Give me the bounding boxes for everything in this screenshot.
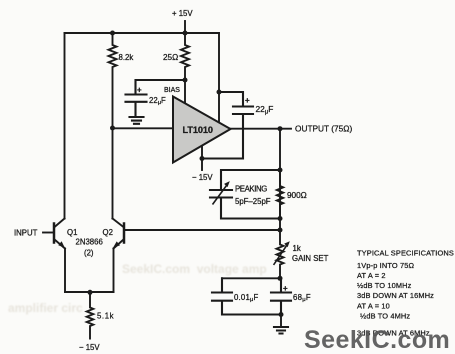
resistor R3 1k gain set	[277, 230, 284, 278]
wire: output vertical to network	[279, 129, 281, 230]
op-amp U1 LT1010	[173, 97, 231, 163]
svg-text:68μF: 68μF	[293, 293, 311, 303]
arrowhead: peaking arrow	[224, 181, 230, 187]
wire: V+ branch down from rail	[218, 33, 220, 92]
wire: V- to output cap bottom	[202, 158, 243, 160]
transistor Q2 collector	[113, 219, 124, 228]
transistor Q2 emitter	[114, 240, 124, 249]
capacitor C4 0.01uF	[212, 278, 232, 314]
ground: under bias capacitor	[130, 117, 144, 124]
svg-text:AT A = 10: AT A = 10	[357, 302, 390, 311]
svg-text:GAIN SET: GAIN SET	[292, 254, 329, 263]
svg-text:Q1: Q1	[67, 228, 77, 237]
svg-text:TYPICAL SPECIFICATIONS: TYPICAL SPECIFICATIONS	[357, 249, 454, 258]
svg-text:22μF: 22μF	[256, 104, 274, 115]
capacitor C3 peaking 5pF-25pF	[210, 170, 232, 219]
wire: left vertical (rail to Q1 collector)	[64, 33, 66, 219]
svg-text:SeekIC.com voltage amp: SeekIC.com voltage amp	[122, 262, 267, 276]
resistor R4 5.1k	[87, 292, 94, 339]
svg-text:AT A = 2: AT A = 2	[357, 271, 386, 280]
wire: V- pin of U1	[201, 147, 203, 170]
arrowhead: Q2 emitter	[113, 241, 120, 247]
junction: emitter tie	[88, 290, 93, 295]
wire: U1 input from node A	[113, 127, 174, 129]
resistor R 8.2k	[109, 33, 117, 128]
wire: gain set arrow	[274, 244, 288, 265]
svg-text:LT1010: LT1010	[183, 125, 213, 135]
wire: INPUT lead	[43, 232, 53, 234]
junction: peaking top	[278, 168, 283, 173]
junction: output node	[278, 126, 283, 131]
junction: gain set bottom	[278, 276, 283, 281]
wire: output line	[231, 128, 292, 130]
transistor Q2 base bar	[123, 224, 126, 243]
wire: +15V stub	[184, 21, 186, 33]
resistor R2 900 ohm	[277, 170, 283, 219]
svg-text:½dB TO 4MHz: ½dB TO 4MHz	[360, 312, 410, 321]
svg-text:2N3866: 2N3866	[76, 238, 103, 247]
wire: peaking loop bottom	[221, 218, 280, 220]
svg-text:SeekIC.com: SeekIC.com	[304, 326, 450, 354]
junction: peaking bottom	[278, 216, 283, 221]
junction: rail / +15V	[183, 31, 188, 36]
svg-text:− 15V: − 15V	[79, 343, 100, 352]
svg-text:3dB DOWN AT 16MHz: 3dB DOWN AT 16MHz	[357, 291, 434, 300]
svg-text:8.2k: 8.2k	[119, 53, 134, 62]
wire: V+ to output cap top	[219, 91, 243, 93]
ground: bottom network	[274, 327, 288, 334]
wire: V+ pin of U1	[218, 92, 220, 123]
arrowhead: gain set arrow	[284, 241, 290, 247]
wire: emitters join	[65, 291, 114, 293]
wire: peaking loop top	[221, 169, 280, 171]
svg-text:INPUT: INPUT	[14, 229, 38, 238]
svg-text:22μF: 22μF	[149, 96, 166, 106]
svg-text:5.1k: 5.1k	[97, 312, 114, 321]
svg-text:1Vp-p INTO 75Ω: 1Vp-p INTO 75Ω	[357, 261, 415, 270]
transistor Q1 base bar	[53, 224, 56, 243]
junction: rail / 8.2k	[110, 31, 115, 36]
svg-text:0.01μF: 0.01μF	[234, 293, 259, 303]
junction: V+ node	[217, 90, 222, 95]
svg-text:5pF–25pF: 5pF–25pF	[235, 197, 271, 206]
svg-text:1k: 1k	[293, 244, 301, 253]
svg-text:(2): (2)	[84, 249, 94, 258]
svg-text:+: +	[245, 96, 250, 105]
junction: V- node	[200, 156, 205, 161]
capacitor C1 22uF bias	[126, 80, 147, 116]
junction: feedback node	[278, 228, 283, 233]
svg-text:+: +	[283, 284, 288, 293]
wire: +15V supply rail	[65, 32, 220, 34]
wire: bottom network top rail	[222, 277, 280, 279]
node A: U1 input / Q2 collector	[110, 126, 115, 131]
svg-text:amplifier circ: amplifier circ	[8, 301, 83, 315]
svg-text:+ 15V: + 15V	[172, 9, 193, 18]
wire: feedback to Q2 base	[124, 229, 280, 231]
wire: Q1 emitter down	[64, 249, 66, 293]
svg-text:900Ω: 900Ω	[287, 191, 307, 200]
svg-text:PEAKING: PEAKING	[235, 185, 267, 194]
transistor Q1 collector	[55, 219, 65, 228]
wire: peaking arrow	[213, 184, 229, 205]
junction: bias node	[183, 78, 188, 83]
wire: bias cap to 25ohm bottom	[136, 79, 186, 81]
junction: cap bottom rail	[279, 312, 284, 317]
wire: Q2 collector up	[112, 128, 114, 219]
wire: ground stub	[280, 315, 282, 327]
svg-text:+: +	[137, 86, 142, 95]
wire: bottom network bottom rail	[222, 314, 281, 316]
svg-text:½dB TO 10MHz: ½dB TO 10MHz	[357, 281, 412, 290]
svg-text:− 15V: − 15V	[192, 173, 213, 182]
transistor Q1 emitter	[55, 240, 66, 249]
wire: BIAS pin of U1	[184, 80, 186, 103]
wire: Q2 emitter down	[113, 249, 115, 293]
svg-text:OUTPUT (75Ω): OUTPUT (75Ω)	[295, 124, 352, 134]
svg-text:BIAS: BIAS	[164, 87, 180, 94]
arrowhead: Q1 emitter	[58, 241, 65, 248]
capacitor C2 22uF output supply	[233, 92, 253, 159]
resistor R 25 ohm	[181, 33, 189, 80]
svg-text:Q2: Q2	[103, 228, 113, 237]
capacitor C5 68uF	[271, 278, 291, 314]
svg-text:25Ω: 25Ω	[163, 53, 178, 62]
